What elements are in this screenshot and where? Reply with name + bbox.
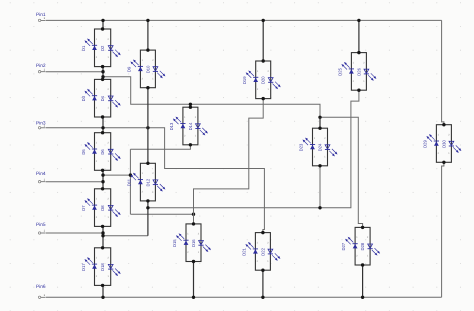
- svg-text:D29: D29: [423, 139, 428, 147]
- svg-text:2: 2: [257, 88, 259, 91]
- junction Pin3 at column A: [101, 126, 104, 129]
- svg-text:2: 2: [96, 216, 98, 219]
- svg-text:D15: D15: [172, 239, 177, 247]
- svg-text:1: 1: [142, 172, 144, 175]
- svg-text:2: 2: [96, 275, 98, 278]
- svg-text:1: 1: [108, 107, 110, 110]
- svg-text:D19: D19: [242, 76, 247, 84]
- wire Pin3 horizontal and route to D21/D22 top: [46, 128, 265, 233]
- svg-text:Pin4: Pin4: [36, 171, 46, 177]
- junction Pin1/D1 stub: [101, 19, 104, 22]
- svg-text:2: 2: [314, 155, 316, 158]
- svg-text:D28: D28: [360, 242, 365, 250]
- svg-text:1: 1: [44, 230, 46, 233]
- svg-text:1: 1: [96, 38, 98, 41]
- svg-text:D26: D26: [356, 67, 361, 75]
- wire Pin4 vertical riser x130: [129, 149, 131, 214]
- connector Pin1: [36, 12, 46, 22]
- svg-text:1: 1: [363, 80, 365, 83]
- svg-text:2: 2: [367, 236, 369, 239]
- wire Pin1 horizontal bus: [46, 19, 442, 21]
- LED pair D11/D12 (E1): [127, 163, 165, 201]
- svg-text:1: 1: [44, 294, 46, 297]
- wire Pin4 horizontal: [46, 181, 103, 183]
- LED pair D29/D30 (H): [423, 125, 461, 163]
- wire stub D1 bottom to D3 top: [102, 67, 104, 80]
- junction Pin2 bus at D13 stub: [189, 103, 192, 106]
- connector Pin5: [36, 222, 46, 234]
- svg-text:2: 2: [187, 251, 189, 254]
- svg-text:1: 1: [96, 198, 98, 201]
- svg-text:D12: D12: [145, 178, 150, 186]
- wire stub D17 bottom to Pin6: [102, 285, 104, 297]
- LED pair D7/D8 (A4): [81, 189, 120, 227]
- wire stub D21 bottom to Pin6: [262, 270, 264, 297]
- LED pair D3/D4 (A2): [81, 79, 120, 117]
- svg-text:1: 1: [314, 137, 316, 140]
- svg-text:D21: D21: [242, 247, 247, 255]
- junction Pin5 bus at column B: [146, 206, 149, 209]
- LED pair D19/D20 (D): [242, 61, 280, 99]
- wire D9/D10 bottom to Pin3: [147, 88, 149, 128]
- svg-text:2: 2: [152, 172, 154, 175]
- svg-text:2: 2: [108, 257, 110, 260]
- svg-text:1: 1: [448, 152, 450, 155]
- svg-text:2: 2: [96, 160, 98, 163]
- svg-text:2: 2: [353, 80, 355, 83]
- junction Pin1/D25 stub: [357, 19, 360, 22]
- svg-text:D1: D1: [81, 45, 86, 51]
- svg-text:2: 2: [108, 88, 110, 91]
- svg-text:2: 2: [96, 56, 98, 59]
- wire D29/D30 bottom to Pin6: [442, 162, 444, 297]
- wire Pin2 horizontal: [46, 71, 103, 73]
- wire Pin4 lower branch to D15/D16 top: [130, 213, 193, 215]
- svg-text:1: 1: [152, 77, 154, 80]
- LED pair D1/D2 (A1): [81, 29, 120, 67]
- svg-text:1: 1: [184, 116, 186, 119]
- svg-text:1: 1: [108, 160, 110, 163]
- svg-text:D10: D10: [145, 65, 150, 73]
- junction Pin3 at column B: [146, 126, 149, 129]
- junction Pin4 at column A: [101, 180, 104, 183]
- svg-text:2: 2: [267, 241, 269, 244]
- svg-text:1: 1: [267, 260, 269, 263]
- svg-text:1: 1: [96, 142, 98, 145]
- junction Pin6 at D15 stub: [192, 296, 195, 299]
- LED pair D5/D6 (A3): [81, 133, 120, 171]
- connector Pin4: [36, 171, 46, 183]
- svg-text:1: 1: [257, 241, 259, 244]
- svg-text:1: 1: [356, 236, 358, 239]
- LED pair D17/D18 (A5): [81, 248, 120, 286]
- svg-text:D11: D11: [127, 178, 132, 186]
- svg-text:1: 1: [96, 257, 98, 260]
- svg-text:D25: D25: [338, 67, 343, 75]
- LED pair D27/D28 (BR): [341, 227, 379, 265]
- svg-text:D3: D3: [81, 95, 86, 101]
- svg-text:1: 1: [152, 191, 154, 194]
- junction Pin4 riser: [129, 173, 132, 176]
- junction Pin4 tap at column A: [101, 173, 104, 176]
- svg-text:2: 2: [152, 59, 154, 62]
- connector Pin6: [36, 284, 46, 299]
- wire Pin1 stub to D1/D2: [102, 20, 104, 29]
- junction Pin2 branch at E2 drop: [318, 116, 321, 119]
- svg-text:1: 1: [108, 56, 110, 59]
- junction Pin5 tap: [101, 234, 104, 237]
- LED pair D9/D10 (B1): [127, 50, 165, 88]
- svg-text:D14: D14: [188, 122, 193, 130]
- svg-text:2: 2: [108, 198, 110, 201]
- wire stub D7 bottom to D17 top: [102, 226, 104, 247]
- wire Pin2 bus to D13 top and E column: [103, 77, 320, 128]
- wire Pin1 stub to D9/D10: [147, 20, 149, 50]
- svg-text:1: 1: [324, 155, 326, 158]
- svg-text:2: 2: [184, 134, 186, 137]
- svg-text:2: 2: [195, 116, 197, 119]
- svg-text:2: 2: [324, 137, 326, 140]
- svg-text:1: 1: [268, 88, 270, 91]
- svg-text:2: 2: [108, 38, 110, 41]
- svg-text:1: 1: [257, 70, 259, 73]
- svg-text:1: 1: [108, 275, 110, 278]
- junction Pin2 at column A: [101, 70, 104, 73]
- wire D11/D12 bottom to Pin5 tap: [147, 201, 149, 236]
- svg-text:D13: D13: [169, 122, 174, 130]
- svg-text:D22: D22: [260, 247, 265, 255]
- LED pair D21/D22 (BM): [242, 233, 280, 271]
- junction Pin1/D9 stub: [146, 19, 149, 22]
- svg-text:Pin5: Pin5: [36, 222, 46, 228]
- svg-text:D16: D16: [191, 239, 196, 247]
- LED pair D23/D24 (E2): [299, 128, 337, 166]
- wire stub Pin2 bus to D13/D14 top: [189, 104, 191, 107]
- wire Pin2 branch to D27/D28 top: [320, 117, 363, 227]
- svg-text:2: 2: [363, 61, 365, 64]
- junction Pin6 at D27 stub: [361, 296, 364, 299]
- svg-text:2: 2: [96, 107, 98, 110]
- svg-text:1: 1: [108, 216, 110, 219]
- wire Pin5 bus to D25/D26 bottom: [148, 90, 359, 208]
- svg-text:D2: D2: [100, 45, 105, 51]
- LED pair D25/D26 (F): [338, 53, 376, 91]
- svg-text:1: 1: [438, 134, 440, 137]
- junction Pin6 at column A: [101, 296, 104, 299]
- junction Pin6 at D21 stub: [261, 296, 264, 299]
- svg-text:D9: D9: [127, 66, 132, 72]
- junction Pin5 bus at E2 stub: [318, 206, 321, 209]
- svg-text:2: 2: [142, 191, 144, 194]
- svg-text:2: 2: [448, 134, 450, 137]
- wire stub D15 bottom to Pin6: [193, 262, 195, 298]
- wire stub D5 bottom to D7 top: [102, 170, 104, 189]
- svg-text:1: 1: [367, 255, 369, 258]
- wire Pin5 horizontal: [46, 232, 103, 234]
- svg-text:2: 2: [438, 152, 440, 155]
- wire D19/D20 bottom route to D15/D16 top: [194, 99, 264, 224]
- junction Pin1/D19 stub: [262, 19, 265, 22]
- connector Pin2: [36, 63, 46, 73]
- junction Pin5 at column A: [101, 231, 104, 234]
- svg-text:2: 2: [356, 255, 358, 258]
- junction Pin4 branch at D15 stub: [192, 213, 195, 216]
- wire Pin5 tap to column B: [103, 235, 148, 237]
- svg-text:1: 1: [353, 61, 355, 64]
- svg-text:D23: D23: [299, 143, 304, 151]
- svg-text:1: 1: [44, 68, 46, 71]
- wire Pin4 tap going right: [103, 174, 130, 176]
- LED pair D13/D14 (C): [169, 107, 207, 145]
- wire Pin1 stub to D19/D20: [262, 20, 264, 61]
- wire Pin1 stub to D25/D26: [358, 20, 360, 52]
- svg-text:D5: D5: [81, 149, 86, 155]
- svg-text:D4: D4: [100, 95, 105, 101]
- wire D13/D14 bottom to Pin4 riser: [130, 145, 190, 150]
- LED pair D15/D16 (BL): [172, 224, 210, 262]
- svg-text:2: 2: [198, 233, 200, 236]
- svg-text:D6: D6: [100, 149, 105, 155]
- wire Pin1 right drop to D29/D30: [442, 20, 444, 124]
- svg-text:1: 1: [195, 134, 197, 137]
- svg-text:D24: D24: [317, 143, 322, 151]
- svg-text:2: 2: [108, 142, 110, 145]
- svg-text:1: 1: [96, 88, 98, 91]
- svg-text:D27: D27: [341, 242, 346, 250]
- svg-text:2: 2: [268, 70, 270, 73]
- svg-text:1: 1: [187, 233, 189, 236]
- wire stub D27 bottom to Pin6: [362, 265, 364, 297]
- svg-text:D8: D8: [100, 205, 105, 211]
- svg-text:2: 2: [257, 260, 259, 263]
- svg-text:D20: D20: [261, 76, 266, 84]
- svg-text:D7: D7: [81, 205, 86, 211]
- svg-text:2: 2: [142, 77, 144, 80]
- svg-text:D18: D18: [100, 263, 105, 271]
- svg-text:D30: D30: [441, 139, 446, 147]
- wire stub E2 bottom to Pin5 bus: [319, 166, 321, 208]
- wire stub D3 bottom to D5 top: [102, 117, 104, 133]
- svg-text:Pin6: Pin6: [36, 284, 46, 290]
- svg-text:1: 1: [142, 59, 144, 62]
- wire stub E2 top: [319, 117, 321, 128]
- wire Pin3 to D11/D12 top: [147, 128, 149, 164]
- svg-text:1: 1: [198, 251, 200, 254]
- svg-text:1: 1: [44, 178, 46, 181]
- wire Pin6 horizontal bus: [46, 296, 442, 298]
- junction Pin2 tap: [101, 75, 104, 78]
- connector Pin3: [36, 120, 46, 129]
- svg-text:D17: D17: [81, 263, 86, 271]
